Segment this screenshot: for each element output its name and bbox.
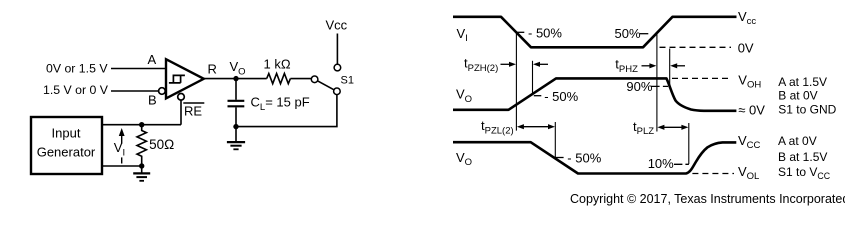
- svg-text:S1: S1: [341, 74, 354, 86]
- svg-text:A at 1.5V: A at 1.5V: [778, 75, 827, 89]
- svg-text:R: R: [208, 62, 217, 77]
- svg-text:A: A: [148, 52, 157, 67]
- tick 50% VO fall: [556, 157, 564, 159]
- arrow tPHZ right: [670, 63, 685, 68]
- svg-text:B: B: [148, 92, 157, 107]
- svg-text:Copyright © 2017, Texas Instru: Copyright © 2017, Texas Instruments Inco…: [570, 192, 845, 206]
- svg-text:Generator: Generator: [37, 144, 96, 159]
- svg-text:50Ω: 50Ω: [149, 137, 174, 152]
- arrow tPZH right: [533, 62, 548, 67]
- wire generator bottom: [103, 165, 142, 167]
- svg-text:- 50%: - 50%: [567, 151, 601, 166]
- switch S1: [311, 64, 354, 94]
- arrow tPZL double: [517, 124, 555, 129]
- dashed VOH level: [672, 77, 732, 79]
- wire output R to 1k: [204, 78, 267, 80]
- wire A input: [111, 68, 166, 70]
- resistor 1k: [267, 74, 291, 84]
- svg-text:A at 0V: A at 0V: [778, 134, 817, 148]
- bubble pin B: [159, 88, 166, 95]
- arrow tPHZ left: [642, 63, 657, 68]
- node ground junction: [233, 124, 238, 129]
- waveform VO enable-high case: [453, 78, 736, 110]
- svg-text:B at 1.5V: B at 1.5V: [778, 150, 827, 164]
- ref line VO 90%: [669, 49, 671, 87]
- hysteresis symbol: [169, 75, 185, 83]
- ref line VI rise 50%: [656, 33, 658, 132]
- wire B input: [111, 90, 159, 92]
- node VO junction: [233, 76, 238, 81]
- ref line VI fall 50%: [515, 32, 517, 130]
- svg-text:B at 0V: B at 0V: [778, 89, 817, 103]
- svg-text:10%: 10%: [648, 156, 674, 171]
- svg-text:RE: RE: [184, 104, 202, 119]
- svg-text:90%: 90%: [626, 79, 652, 94]
- node junction bottom of 50 ohm: [139, 163, 144, 168]
- ground under 50 ohm: [133, 166, 150, 181]
- wire switch pole to ground bus: [236, 95, 337, 127]
- waveform VI: [453, 17, 737, 48]
- capacitor CL: [228, 101, 245, 127]
- ref line VO fall 50%: [554, 122, 556, 158]
- wire RE vertical: [180, 100, 182, 125]
- arrow tPLZ double: [657, 125, 688, 130]
- svg-text:- 50%: - 50%: [544, 89, 578, 104]
- bubble pin RE: [178, 94, 185, 101]
- tick 90%: [651, 85, 668, 87]
- ground under capacitor: [227, 127, 245, 150]
- label RE with overline: [183, 103, 204, 119]
- svg-text:1 kΩ: 1 kΩ: [264, 56, 291, 71]
- svg-text:≈ 0V: ≈ 0V: [738, 102, 765, 117]
- dashed VOL level: [692, 173, 734, 175]
- wire generator top to RE branch: [103, 124, 181, 126]
- svg-text:- 50%: - 50%: [528, 25, 562, 40]
- svg-text:1.5 V or 0 V: 1.5 V or 0 V: [43, 83, 109, 97]
- svg-text:S1 to GND: S1 to GND: [778, 102, 836, 116]
- ref line VO 10%: [688, 123, 690, 164]
- svg-text:Vcc: Vcc: [326, 18, 348, 33]
- svg-text:50%: 50%: [615, 26, 641, 41]
- svg-text:0V or 1.5 V: 0V or 1.5 V: [46, 62, 108, 76]
- tick 10%: [674, 163, 689, 165]
- tick 50% VI fall: [517, 31, 524, 33]
- waveform VO enable-low case: [453, 142, 736, 173]
- ref line VO rise 50%: [532, 61, 534, 94]
- wire Vcc to switch: [336, 34, 338, 65]
- svg-text:Input: Input: [52, 125, 81, 140]
- wire VO to capacitor: [235, 79, 237, 100]
- wire 1k to switch: [290, 78, 311, 80]
- tick 50% VI rise: [640, 33, 649, 35]
- source arrow VI: [119, 128, 125, 164]
- svg-text:0V: 0V: [738, 40, 754, 55]
- resistor 50 ohm: [137, 125, 146, 166]
- tick 50% VO rise: [534, 95, 542, 97]
- dashed 0V level: [660, 46, 732, 48]
- buffer U1 triangle: [166, 59, 204, 98]
- input generator box: [31, 117, 102, 174]
- arrow tPZH left: [501, 62, 517, 67]
- node junction top of 50 ohm: [139, 122, 144, 127]
